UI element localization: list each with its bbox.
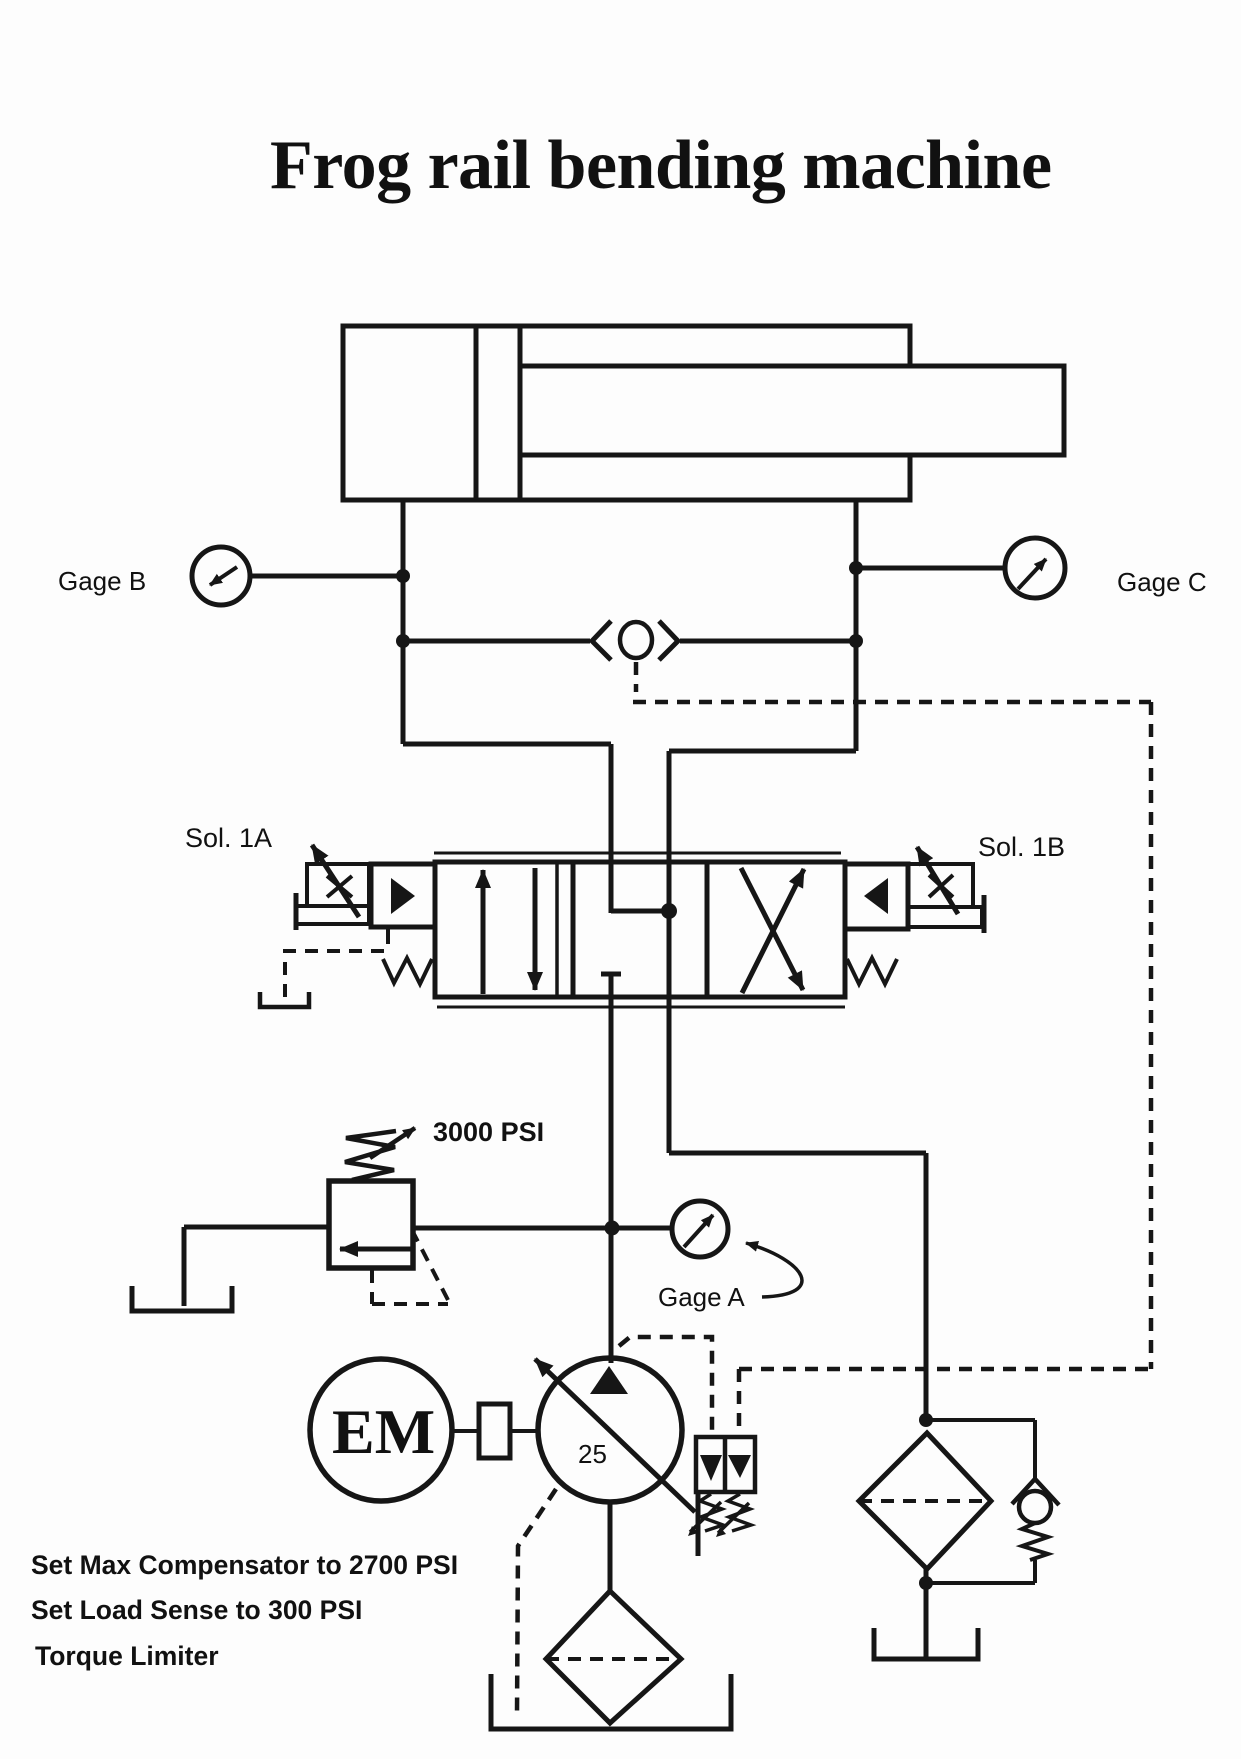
svg-text:3000 PSI: 3000 PSI: [433, 1117, 544, 1147]
svg-text:Gage C: Gage C: [1117, 567, 1207, 597]
svg-text:Set Max Compensator to 2700 PS: Set Max Compensator to 2700 PSI: [31, 1550, 458, 1580]
svg-text:Set Load Sense to 300 PSI: Set Load Sense to 300 PSI: [31, 1595, 362, 1625]
svg-text:Sol. 1B: Sol. 1B: [978, 832, 1065, 862]
svg-text:Sol. 1A: Sol. 1A: [185, 823, 272, 853]
svg-text:Torque Limiter: Torque Limiter: [35, 1641, 219, 1671]
svg-text:Frog rail bending machine: Frog rail bending machine: [270, 127, 1052, 204]
svg-text:Gage A: Gage A: [658, 1282, 745, 1312]
svg-text:EM: EM: [332, 1396, 435, 1467]
svg-text:25: 25: [578, 1439, 607, 1469]
svg-text:Gage B: Gage B: [58, 566, 146, 596]
